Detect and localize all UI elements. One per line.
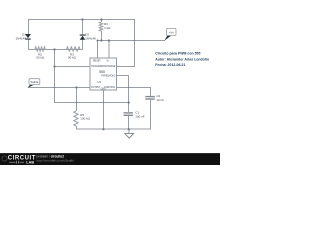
svg-text:100 nF: 100 nF bbox=[135, 114, 145, 118]
svg-text:OUTPUT: OUTPUT bbox=[91, 87, 101, 89]
svg-text:http://circuitlab.com/c/5pq8d: http://circuitlab.com/c/5pq8d bbox=[37, 159, 75, 163]
svg-text:1 kΩ: 1 kΩ bbox=[104, 26, 111, 30]
svg-text:Salida: Salida bbox=[30, 80, 38, 84]
svg-text:1N4148: 1N4148 bbox=[15, 36, 26, 40]
svg-text:RESET: RESET bbox=[93, 60, 101, 62]
svg-text:Fecha: 2012-06-21: Fecha: 2012-06-21 bbox=[155, 63, 185, 67]
svg-text:Circuito para PWM con 555: Circuito para PWM con 555 bbox=[155, 52, 200, 56]
svg-text:100 kΩ: 100 kΩ bbox=[80, 117, 90, 121]
svg-text:DISCHARGE: DISCHARGE bbox=[102, 65, 116, 68]
svg-text:90 kΩ: 90 kΩ bbox=[68, 56, 77, 60]
svg-text:CONTROL: CONTROL bbox=[104, 87, 116, 89]
svg-text:90 kΩ: 90 kΩ bbox=[36, 56, 45, 60]
svg-text:GND: GND bbox=[101, 89, 106, 91]
svg-text:TRIGGER: TRIGGER bbox=[91, 66, 102, 68]
svg-text:LAB: LAB bbox=[26, 161, 34, 165]
svg-text:Autor: Alexander Arias Londoño: Autor: Alexander Arias Londoño bbox=[155, 57, 209, 61]
svg-text:THRESHOLD: THRESHOLD bbox=[101, 76, 116, 78]
svg-text:10 nF: 10 nF bbox=[156, 98, 164, 102]
svg-text:1N4148: 1N4148 bbox=[85, 36, 96, 40]
svg-text:+Vs: +Vs bbox=[169, 30, 174, 34]
svg-text:555: 555 bbox=[99, 70, 105, 74]
svg-text:U1: U1 bbox=[97, 80, 101, 84]
